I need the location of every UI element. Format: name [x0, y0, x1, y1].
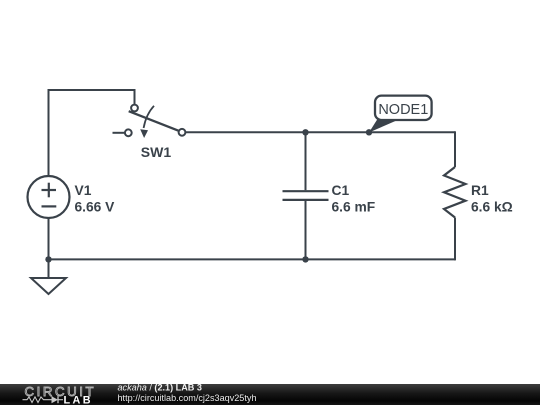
footer bar	[0, 384, 540, 405]
node NODE1 callout	[369, 96, 432, 133]
node junction dot (cap top)	[302, 129, 308, 135]
node junction dot NODE1	[366, 129, 372, 135]
svg-text:ackaha / (2.1) LAB 3: ackaha / (2.1) LAB 3	[118, 382, 202, 392]
label C1 value	[332, 183, 376, 215]
wire left vertical (top rail down to V1)	[48, 89, 50, 176]
node junction dot (cap bottom)	[302, 256, 308, 262]
wire V1 bottom lead	[48, 218, 50, 259]
svg-text:http://circuitlab.com/cj2s3aqv: http://circuitlab.com/cj2s3aqv25tyh	[118, 393, 257, 403]
ground	[31, 259, 66, 294]
svg-text:SW1: SW1	[141, 144, 172, 160]
label R1 value	[471, 183, 513, 215]
switch SW1	[113, 105, 186, 138]
label V1 value	[75, 183, 116, 215]
wire top rail (switch to right)	[186, 131, 456, 133]
capacitor C1	[283, 132, 329, 259]
wire SW1 top lead	[134, 89, 136, 105]
logo diode symbol	[52, 396, 64, 403]
wire bottom rail	[49, 258, 456, 260]
svg-text:R1: R1	[471, 183, 489, 198]
svg-text:6.6 mF: 6.6 mF	[332, 200, 376, 215]
logo resistor symbol	[23, 397, 52, 403]
voltage source V1	[28, 176, 70, 218]
svg-text:6.66 V: 6.66 V	[75, 200, 116, 215]
resistor R1	[444, 131, 466, 260]
node junction dot at ground	[45, 256, 51, 262]
svg-text:C1: C1	[332, 183, 350, 198]
svg-text:NODE1: NODE1	[378, 102, 428, 118]
wire top-left horizontal (V1 top to SW1 top)	[49, 89, 135, 91]
svg-text:V1: V1	[75, 183, 92, 198]
svg-text:LAB: LAB	[64, 394, 93, 405]
svg-text:6.6 kΩ: 6.6 kΩ	[471, 200, 513, 215]
